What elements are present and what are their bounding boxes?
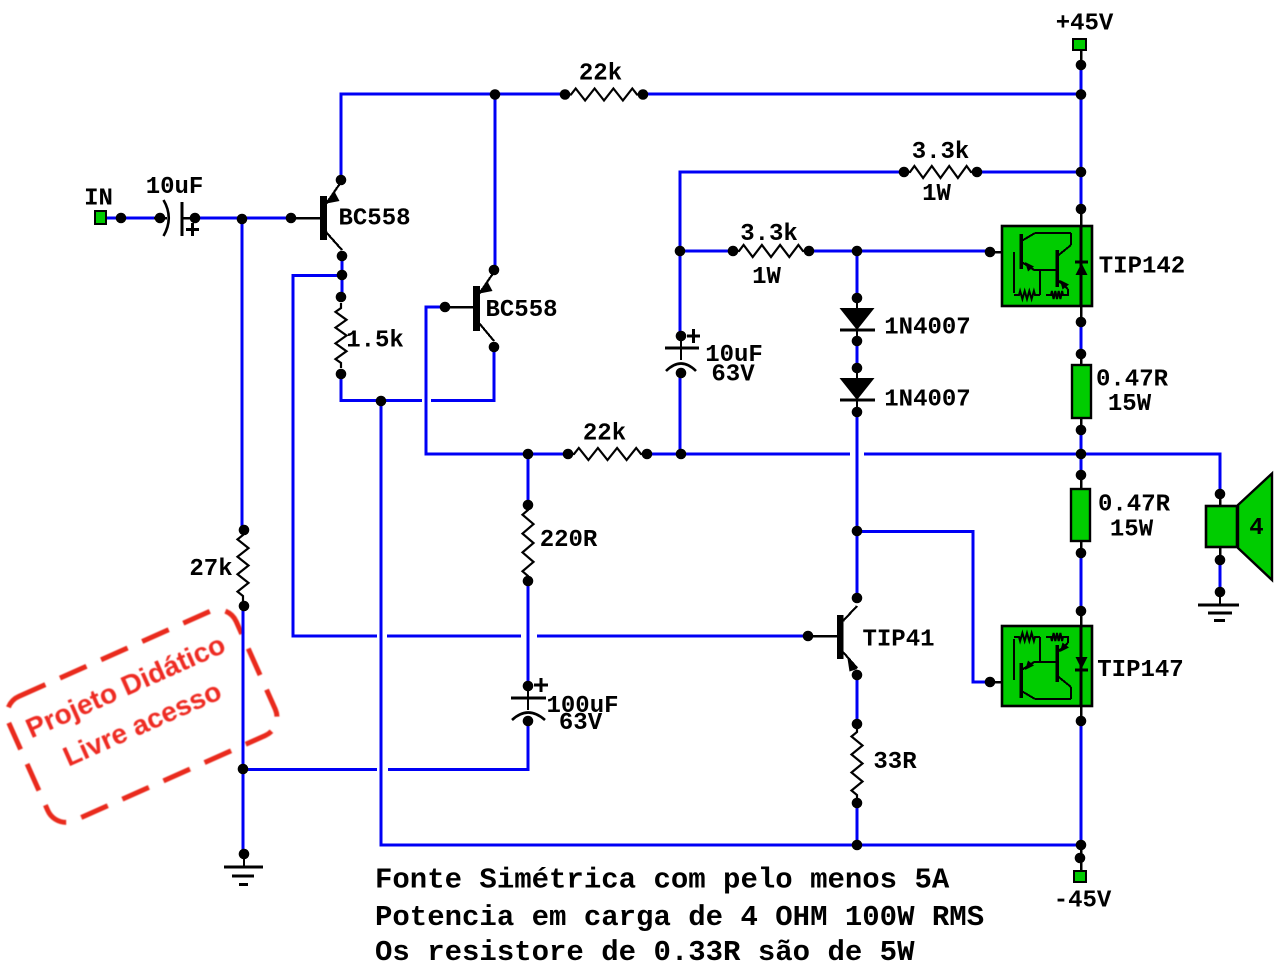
junction 3.3k lower right: [804, 246, 815, 257]
junction bottom rail x857: [852, 840, 863, 851]
ground (speaker): [1198, 592, 1239, 621]
junction y251 a: [675, 246, 686, 257]
wire: 27k vertical x242: [241, 219, 244, 527]
svg-text:15W: 15W: [1108, 391, 1152, 418]
capacitor 10uF (input): [154, 217, 167, 220]
junction input a: [116, 213, 127, 224]
junction y769 left: [238, 764, 249, 775]
svg-text:3.3k: 3.3k: [740, 221, 798, 248]
ground (27k leg): [224, 854, 263, 885]
junction 100uF plus: [523, 681, 534, 692]
svg-text:-45V: -45V: [1054, 888, 1112, 915]
junction 1.5k bottom: [336, 369, 347, 380]
junction input b: [155, 213, 166, 224]
junction Q2 collector: [489, 265, 500, 276]
junction input c: [190, 213, 201, 224]
wire: input line: [104, 217, 162, 220]
junction 3.3k top right: [972, 167, 983, 178]
junction speaker bottom: [1215, 555, 1226, 566]
junction bottom rail x1081: [1076, 840, 1087, 851]
svg-text:1W: 1W: [922, 181, 951, 208]
wire: Q2 base riser x426: [425, 306, 428, 456]
wire: 220R / 100uF vertical x528: [527, 453, 530, 508]
junction gnd main: [239, 849, 250, 860]
junction diode top: [852, 246, 863, 257]
junction TIP41 base: [803, 631, 814, 642]
junction top rail a: [490, 89, 501, 100]
wire: Q1 emitter to 1.5k: [341, 256, 344, 299]
wire: Q2 collector vertical x495: [494, 94, 497, 270]
svg-text:3.3k: 3.3k: [912, 139, 970, 166]
wire: y172 run to 3.3k: [679, 171, 907, 174]
svg-text:1N4007: 1N4007: [884, 315, 970, 342]
junction input e: [286, 213, 297, 224]
junction input d: [237, 214, 248, 225]
svg-text:63V: 63V: [559, 710, 603, 737]
junction TIP142 collector: [1076, 204, 1087, 215]
junction 22k mid right: [642, 449, 653, 460]
wire: node to x293 riser: [293, 274, 342, 277]
resistor 27k: [238, 530, 249, 601]
wire: TIP41 base run y636: [292, 635, 378, 638]
junction 10uF63V neg: [676, 368, 687, 379]
junction TIP147 emitter: [1076, 606, 1087, 617]
transistor U1 TIP142 (NPN darlington module): [1002, 226, 1092, 306]
junction Q2 base: [440, 302, 451, 313]
wire: 1.5k bottom to y400 run: [340, 374, 343, 399]
junction TIP147 collector: [1076, 716, 1087, 727]
svg-text:0.47R: 0.47R: [1098, 492, 1171, 519]
junction 27k bottom: [239, 601, 250, 612]
svg-text:BC558: BC558: [485, 297, 557, 324]
junction TIP142 base: [985, 247, 996, 258]
wire: main right vertical x1081: [1080, 49, 1083, 66]
svg-text:1W: 1W: [752, 264, 781, 291]
svg-text:TIP142: TIP142: [1099, 254, 1185, 281]
svg-text:220R: 220R: [540, 527, 598, 554]
resistor 0.47R 15W (lower): [1071, 489, 1090, 541]
junction cap chain rail: [676, 449, 687, 460]
node IN terminal: [95, 211, 106, 224]
svg-text:22k: 22k: [583, 421, 626, 448]
junction 220R top: [523, 449, 534, 460]
transistor Q2 BC558 (PNP): [473, 272, 494, 341]
svg-text:IN: IN: [84, 186, 113, 213]
wire: y251 run to 3.3k 1W: [679, 250, 736, 253]
wire: Q2 emitter drop: [493, 347, 496, 402]
resistor 1.5k: [336, 303, 347, 368]
junction 22k top left: [560, 89, 571, 100]
diode D1 1N4007: [856, 298, 858, 310]
junction speaker gnd: [1215, 587, 1226, 598]
junction x1081 y172: [1076, 167, 1087, 178]
node -45V terminal: [1074, 871, 1086, 882]
svg-text:Fonte Simétrica com pelo menos: Fonte Simétrica com pelo menos 5A: [375, 864, 950, 897]
junction speaker top: [1215, 489, 1226, 500]
junction 100uF neg: [523, 716, 534, 727]
junction TIP41 emitter: [852, 670, 863, 681]
wire: speaker branch x1220: [1219, 453, 1222, 496]
wire: bottom -45V rail y845: [380, 844, 1082, 847]
svg-text:63V: 63V: [711, 362, 755, 389]
junction 10uF63V plus: [676, 331, 687, 342]
junction 0.47R low bottom: [1076, 548, 1087, 559]
svg-text:1N4007: 1N4007: [884, 387, 970, 414]
junction y400/x381: [376, 396, 387, 407]
junction 3.3k top left: [899, 167, 910, 178]
resistor 220R: [523, 505, 534, 581]
junction 1.5k top: [336, 292, 347, 303]
svg-text:1.5k: 1.5k: [346, 328, 404, 355]
wire: y769 return run: [242, 768, 377, 771]
junction drive tap: [852, 526, 863, 537]
svg-text:27k: 27k: [189, 556, 232, 583]
transistor Q3 TIP41 (NPN): [837, 606, 858, 672]
junction Q1 collector: [336, 175, 347, 186]
transistor Q1 BC558 (PNP): [320, 182, 342, 250]
junction Q2 emitter: [489, 342, 500, 353]
svg-text:Potencia em carga de 4 OHM 100: Potencia em carga de 4 OHM 100W RMS: [375, 901, 984, 934]
transistor U2 TIP147 (PNP darlington module): [1002, 626, 1092, 706]
resistor 3.3k 1W (top): [905, 166, 976, 178]
capacitor 10uF 63V: [687, 335, 700, 338]
wire: x381 long vertical to bottom rail: [380, 401, 383, 847]
junction TIP41 collector: [852, 593, 863, 604]
junction 33R bottom: [852, 798, 863, 809]
junction 0.47R up top: [1076, 349, 1087, 360]
speaker 4 ohm: [1206, 506, 1237, 547]
junction D1 anode: [852, 293, 863, 304]
svg-text:33R: 33R: [873, 749, 917, 776]
diode D2 1N4007: [856, 368, 858, 380]
junction output rail x1081: [1076, 449, 1087, 460]
wire: diode chain x857: [856, 251, 859, 300]
junction D2 anode: [852, 363, 863, 374]
junction 33R top: [852, 719, 863, 730]
junction 22k mid left: [563, 449, 574, 460]
svg-text:TIP41: TIP41: [862, 627, 934, 654]
svg-text:4: 4: [1249, 515, 1263, 542]
wire: top +45V rail y95: [340, 93, 568, 96]
junction +45V stub: [1076, 60, 1087, 71]
junction -45V stub: [1075, 853, 1086, 864]
junction +45V rail: [1076, 89, 1087, 100]
junction 27k top: [239, 525, 250, 536]
wire: Q1 collector up to top rail: [340, 93, 343, 181]
junction 0.47R up bottom: [1076, 425, 1087, 436]
svg-text:10uF: 10uF: [146, 174, 204, 201]
junction 22k top right: [638, 89, 649, 100]
node +45V terminal: [1073, 39, 1086, 50]
resistor 33R: [852, 727, 863, 800]
svg-text:TIP147: TIP147: [1097, 657, 1183, 684]
svg-text:15W: 15W: [1110, 517, 1154, 544]
junction x293 tap: [337, 270, 348, 281]
resistor 22k (top): [566, 89, 642, 101]
wire: 3.3k top feed x680 vertical: [679, 171, 682, 339]
junction 220R mid bottom: [523, 576, 534, 587]
stamp "Projeto Didatico Livre acesso": [1, 603, 284, 829]
wire: mid output rail y454: [425, 453, 571, 456]
junction TIP142 emitter: [1076, 317, 1087, 328]
svg-text:22k: 22k: [579, 61, 622, 88]
svg-text:0.47R: 0.47R: [1096, 367, 1169, 394]
svg-text:Os resistore de 0.33R são de 5: Os resistore de 0.33R são de 5W: [375, 936, 915, 965]
junction Q1 emitter: [337, 251, 348, 262]
capacitor 100uF 63V: [534, 684, 548, 687]
junction 0.47R low top: [1076, 470, 1087, 481]
junction 220R mid top: [523, 500, 534, 511]
junction D1 cathode: [852, 336, 863, 347]
wire: TIP147 base route: [856, 530, 975, 533]
resistor 22k (mid): [569, 448, 646, 460]
junction 3.3k lower left: [728, 246, 739, 257]
resistor 3.3k 1W (lower): [734, 245, 808, 257]
svg-text:+45V: +45V: [1056, 11, 1114, 38]
svg-text:BC558: BC558: [338, 206, 410, 233]
resistor 0.47R 15W (upper): [1072, 365, 1091, 418]
junction D2 cathode: [852, 407, 863, 418]
junction TIP147 base: [985, 677, 996, 688]
